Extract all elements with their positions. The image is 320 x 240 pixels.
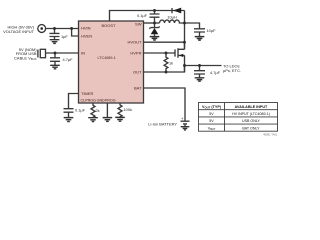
capacitor C4 0.1uF boost	[150, 11, 160, 24]
svg-text:SW: SW	[135, 22, 142, 27]
svg-text:5V: 5V	[209, 112, 214, 116]
ground under R1	[88, 118, 98, 122]
svg-text:5V: 5V	[209, 119, 214, 123]
ground under C2	[50, 65, 60, 69]
svg-text:GND: GND	[97, 98, 106, 102]
svg-text:BOOST: BOOST	[101, 23, 116, 28]
diode D1 boost	[155, 8, 185, 13]
IC body U1 LTC4089-1	[79, 21, 144, 103]
svg-text:4.7µF: 4.7µF	[210, 70, 221, 75]
svg-text:HVOUT: HVOUT	[128, 40, 143, 45]
resistor R1 2k	[91, 103, 95, 118]
resistor R2 100k	[118, 103, 122, 117]
table of outputs	[199, 103, 278, 132]
svg-text:Li-Ion BATTERY: Li-Ion BATTERY	[148, 122, 177, 127]
transistor Q1 PMOS	[175, 42, 185, 72]
svg-text:IN: IN	[81, 50, 85, 55]
wire OUT rail	[185, 65, 222, 67]
ground under BT1	[181, 127, 190, 130]
svg-text:PROG: PROG	[105, 98, 116, 102]
svg-text:µPs, ETC.: µPs, ETC.	[223, 68, 241, 73]
svg-text:1µF: 1µF	[61, 34, 68, 39]
svg-text:10µF: 10µF	[207, 28, 217, 33]
svg-text:BAT: BAT	[134, 85, 142, 90]
capacitor C1 1uF	[50, 29, 60, 40]
svg-text:HVPR: HVPR	[130, 50, 141, 55]
svg-text:100k: 100k	[124, 107, 132, 112]
diode D2 triangle	[151, 28, 159, 34]
svg-text:0.1µF: 0.1µF	[75, 108, 86, 113]
wire OUT	[144, 66, 185, 73]
svg-text:VOLTAGE INPUT: VOLTAGE INPUT	[3, 29, 35, 34]
wire HVPR gate	[144, 52, 176, 54]
svg-text:+: +	[181, 116, 184, 121]
ground under C3	[64, 118, 74, 122]
diode D1 triangle	[173, 8, 181, 14]
wire TIMER	[69, 94, 79, 109]
svg-text:LTC4089-1: LTC4089-1	[98, 56, 116, 60]
wire to 10uF	[185, 23, 200, 29]
wire BAT	[144, 88, 186, 121]
ground under D2	[150, 37, 160, 40]
svg-text:TO LDOs: TO LDOs	[223, 63, 240, 68]
USB connector J2	[37, 50, 39, 58]
svg-text:AVAILABLE INPUT: AVAILABLE INPUT	[235, 105, 268, 109]
wire IN	[46, 52, 79, 54]
IC pin labels	[80, 22, 142, 103]
ground under GND pin	[103, 118, 113, 122]
svg-text:CABLE VBUS: CABLE VBUS	[14, 55, 37, 61]
ground under R2	[115, 117, 125, 121]
svg-text:VBAT: VBAT	[208, 126, 216, 131]
svg-text:1k: 1k	[169, 61, 173, 66]
battery BT1	[181, 121, 190, 127]
wire GND pin	[106, 103, 108, 118]
svg-text:40891 TA01: 40891 TA01	[263, 133, 278, 137]
input terminal J1 (high voltage)	[38, 25, 46, 33]
svg-text:HVIN: HVIN	[81, 25, 91, 30]
transistor Q1 arrow	[179, 54, 183, 57]
svg-text:0.1µF: 0.1µF	[137, 13, 148, 18]
svg-text:CLPROG: CLPROG	[80, 98, 96, 102]
capacitor C6 4.7uF out	[194, 66, 205, 78]
ground under C6	[195, 78, 205, 81]
table text	[202, 105, 270, 131]
ground under C1	[50, 40, 60, 44]
svg-text:HV INPUT (LTC4089-1): HV INPUT (LTC4089-1)	[232, 112, 270, 116]
all text labels (drawn at 2x then scaled 0.5 to avoid min-font clamp)	[3, 13, 278, 137]
capacitor C5 10uF	[194, 29, 205, 37]
svg-text:USB ONLY: USB ONLY	[242, 119, 261, 123]
svg-text:4.7µF: 4.7µF	[63, 57, 74, 62]
resistor R3 1k	[164, 53, 168, 72]
node VIN dot inner	[41, 27, 43, 29]
svg-text:OUT: OUT	[133, 69, 142, 74]
svg-text:HVEN: HVEN	[81, 33, 92, 38]
svg-text:BAT ONLY: BAT ONLY	[242, 126, 260, 130]
wire HVEN tie	[72, 29, 79, 37]
ground symbols	[50, 37, 205, 130]
ground under C5	[195, 37, 205, 41]
svg-text:VOUT (TYP): VOUT (TYP)	[202, 105, 222, 110]
wire HVIN input	[46, 28, 79, 30]
svg-text:2k: 2k	[96, 108, 100, 113]
wire BOOST	[110, 11, 155, 22]
svg-text:10µH: 10µH	[167, 14, 177, 19]
wire SW node	[144, 22, 160, 24]
diode D2 zener	[149, 23, 159, 37]
wire HV output node	[144, 11, 185, 50]
capacitor C2 4.7uF	[50, 53, 60, 65]
capacitor C3 0.1uF	[64, 109, 74, 118]
inductor L1 10uH	[160, 20, 185, 23]
svg-text:TIMER: TIMER	[81, 91, 94, 96]
junction dots	[40, 9, 201, 73]
